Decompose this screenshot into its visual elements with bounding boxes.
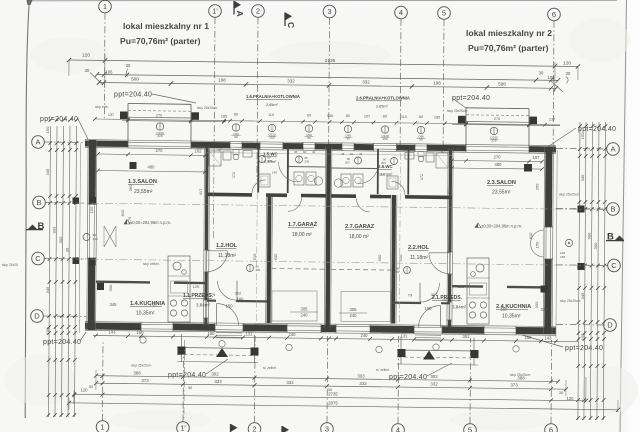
svg-text:185: 185 [221, 115, 227, 119]
slup columns [2, 105, 585, 377]
room label 2.5 WC [378, 164, 393, 177]
svg-text:słup 25x25cm: słup 25x25cm [447, 109, 468, 113]
svg-text:10,35m²: 10,35m² [502, 314, 521, 320]
svg-text:143: 143 [545, 335, 553, 340]
svg-text:200: 200 [256, 268, 261, 272]
svg-text:30: 30 [85, 68, 90, 73]
bottom dim line 373/333 [89, 378, 568, 395]
grid axis 4 top [395, 6, 408, 150]
svg-text:2.5.WC: 2.5.WC [378, 164, 393, 169]
svg-text:200: 200 [305, 160, 310, 164]
svg-text:40: 40 [312, 150, 316, 154]
svg-text:ppt=204.40: ppt=204.40 [114, 92, 152, 99]
grid axis 2 top [252, 5, 265, 180]
room label 2.6 PRALNIA [356, 96, 410, 109]
room label 1.2 HOL [216, 243, 238, 259]
svg-text:240: 240 [361, 333, 369, 338]
svg-text:345: 345 [580, 292, 585, 299]
svg-text:150: 150 [560, 255, 565, 259]
svg-text:129: 129 [193, 284, 200, 289]
door hol/przeds lokal 1 [218, 281, 238, 301]
svg-text:79: 79 [211, 292, 216, 297]
svg-text:302: 302 [430, 374, 438, 379]
svg-text:1.5.WC: 1.5.WC [263, 152, 278, 157]
entrance door lokal 2 [419, 306, 441, 328]
svg-text:351: 351 [463, 334, 471, 339]
axis line inside building [184, 150, 401, 420]
svg-text:30: 30 [539, 71, 544, 76]
kitchen counter lokal 2 [467, 258, 489, 324]
room label 2.2 HOL [408, 245, 430, 261]
svg-text:150: 150 [535, 241, 540, 248]
svg-text:3: 3 [327, 7, 331, 16]
pralnia partition lokal 1 [288, 166, 326, 169]
svg-text:3,84m²: 3,84m² [452, 305, 467, 310]
left dimension chains [45, 118, 78, 417]
room label 1.4 KUCHNIA [130, 301, 165, 317]
door wc lokal 2 [392, 181, 406, 195]
svg-text:240: 240 [289, 332, 297, 337]
svg-text:106: 106 [548, 75, 556, 80]
row axis C left [32, 252, 86, 265]
svg-text:30: 30 [126, 63, 131, 68]
row axis A left [32, 136, 86, 149]
svg-text:200: 200 [345, 161, 350, 165]
row axis D left [31, 310, 86, 323]
svg-text:300: 300 [534, 301, 539, 308]
title lokal 1 [120, 21, 209, 46]
svg-text:4: 4 [399, 8, 403, 17]
bathroom fixtures lokal 2 [334, 152, 448, 190]
svg-text:345: 345 [45, 286, 50, 293]
svg-text:60: 60 [307, 114, 311, 118]
svg-text:sł. żelbet.: sł. żelbet. [376, 368, 390, 372]
svg-text:4: 4 [396, 426, 400, 432]
grid axis 3 bottom [321, 336, 334, 432]
svg-text:6: 6 [552, 10, 556, 19]
svg-text:45: 45 [341, 152, 345, 156]
svg-text:11,18m²: 11,18m² [218, 253, 236, 259]
svg-text:2,83m²: 2,83m² [380, 172, 393, 177]
svg-text:345: 345 [541, 307, 549, 312]
porch lokal 2 [397, 337, 479, 366]
svg-text:18,00 m²: 18,00 m² [349, 234, 369, 240]
grid axis 1' top [209, 5, 222, 150]
svg-text:480: 480 [148, 165, 156, 170]
svg-text:150: 150 [45, 327, 50, 334]
svg-text:2135: 2135 [325, 58, 336, 64]
svg-text:1: 1 [103, 2, 107, 11]
svg-text:słup żelb.: słup żelb. [95, 105, 109, 109]
svg-text:D: D [607, 321, 613, 330]
elevation mark lokal 2 [475, 223, 522, 229]
svg-text:102: 102 [455, 148, 461, 152]
svg-text:A: A [235, 11, 245, 17]
level label ppt=204.40 bot-porch-2 [389, 363, 452, 381]
svg-text:Pu=70,76m² (parter): Pu=70,76m² (parter) [120, 36, 201, 46]
svg-text:23,55m²: 23,55m² [492, 190, 511, 196]
hol small dims [197, 146, 461, 181]
level label ppt=204.40 top-right [546, 126, 616, 148]
grid axis 6 top [548, 8, 561, 155]
interior vertical dims [89, 183, 540, 308]
door salon/hol lokal 2 [429, 253, 450, 274]
svg-text:ppt=204.40: ppt=204.40 [40, 116, 78, 123]
exterior wall east [543, 147, 553, 334]
dim band end verticals [105, 54, 555, 92]
grid axis 1 bottom [96, 342, 109, 432]
svg-text:150: 150 [580, 132, 585, 139]
porch lokal 1 [177, 334, 259, 363]
french door west wall [83, 197, 116, 266]
bottom band end verticals [69, 370, 618, 412]
garage west wall lokal 1 [266, 195, 273, 324]
svg-text:A: A [610, 145, 615, 154]
svg-text:ppt=204.40: ppt=204.40 [452, 95, 490, 102]
svg-text:150: 150 [89, 206, 94, 213]
svg-text:słup 25x25: słup 25x25 [2, 263, 18, 267]
svg-text:240: 240 [301, 313, 309, 318]
svg-text:810: 810 [120, 209, 125, 216]
garage east wall lokal 2 [390, 195, 397, 324]
row axis B line across building [47, 203, 606, 210]
svg-text:30: 30 [566, 71, 571, 76]
svg-text:126: 126 [327, 114, 333, 118]
svg-text:ppt=204.40: ppt=204.40 [578, 126, 616, 133]
salon 2 top dims [450, 155, 544, 171]
svg-text:C: C [35, 254, 41, 263]
service partitions [258, 148, 408, 195]
svg-text:Pu=70,76m² (parter): Pu=70,76m² (parter) [468, 43, 549, 53]
garage 2.7 inner outline [331, 269, 392, 321]
window dimension chain [93, 113, 560, 127]
svg-text:lokal mieszkalny nr 1: lokal mieszkalny nr 1 [123, 21, 209, 31]
room label 1.3 SALON [128, 179, 157, 195]
svg-text:60: 60 [234, 113, 238, 117]
svg-text:210: 210 [93, 237, 98, 241]
svg-text:1.7.GARAŻ: 1.7.GARAŻ [288, 221, 318, 228]
svg-text:600: 600 [377, 254, 382, 261]
level label ppt=204.40 bot-porch-1 [168, 359, 228, 379]
svg-text:A: A [35, 138, 40, 147]
svg-text:B: B [610, 205, 615, 214]
svg-text:270: 270 [156, 114, 162, 118]
svg-text:2,65m²: 2,65m² [266, 103, 278, 107]
svg-text:ppt=204.40: ppt=204.40 [168, 372, 206, 379]
grid axis 1' bottom [177, 350, 190, 432]
svg-text:198: 198 [218, 78, 226, 83]
svg-text:120: 120 [82, 53, 90, 59]
svg-text:1.6.PRALNIA+KOTLOWNIA: 1.6.PRALNIA+KOTLOWNIA [246, 94, 300, 99]
room label 1.1 PRZEDS [183, 293, 214, 308]
svg-text:900: 900 [587, 232, 592, 239]
svg-text:150: 150 [208, 331, 216, 336]
row axis A right [556, 143, 619, 156]
partition salon/kuchnia lokal 2 [452, 285, 545, 289]
svg-text:60: 60 [346, 114, 350, 118]
svg-text:120: 120 [81, 388, 89, 393]
svg-text:2875: 2875 [328, 400, 338, 405]
page left edge [25, 0, 29, 418]
svg-text:332: 332 [359, 381, 367, 386]
svg-text:300: 300 [593, 242, 598, 249]
svg-text:150: 150 [45, 126, 50, 133]
svg-text:±0,00=204,96m n.p.m.: ±0,00=204,96m n.p.m. [481, 224, 522, 229]
level label ppt=204.40 bot-right [522, 335, 603, 352]
svg-text:360: 360 [535, 183, 540, 190]
title lokal 2 [466, 28, 552, 53]
svg-text:słup żelbet.: słup żelbet. [143, 262, 160, 266]
room label 1.6 PRALNIA [246, 94, 300, 107]
svg-text:810: 810 [528, 232, 533, 239]
scan top edge line [27, 0, 618, 5]
svg-text:510: 510 [252, 253, 257, 260]
wall outer face lines [79, 143, 557, 338]
svg-text:60: 60 [383, 115, 387, 119]
section flag A bottom [231, 424, 238, 432]
svg-text:131: 131 [246, 332, 254, 337]
svg-text:345: 345 [110, 302, 118, 307]
service strip wall (garage north walls) [207, 193, 452, 200]
svg-text:40: 40 [359, 152, 363, 156]
door garage lokal 1 [288, 198, 302, 212]
svg-text:270: 270 [494, 117, 500, 121]
svg-text:129: 129 [458, 284, 465, 289]
pralnia partition lokal 2 [331, 167, 378, 170]
section flag C bottom [282, 426, 289, 432]
svg-text:300: 300 [58, 236, 63, 243]
svg-text:302: 302 [211, 371, 219, 376]
svg-text:332: 332 [362, 80, 370, 85]
svg-text:1': 1' [212, 7, 218, 16]
svg-text:60: 60 [303, 150, 307, 154]
exterior wall west [87, 140, 97, 330]
svg-text:143: 143 [109, 330, 117, 335]
row axis B right [556, 203, 619, 216]
door salon/hol lokal 1 [207, 251, 228, 272]
svg-text:150: 150 [150, 303, 158, 308]
svg-text:198: 198 [433, 81, 441, 86]
svg-text:57: 57 [218, 148, 222, 152]
door marker hol lokal 1 [247, 265, 261, 273]
leader strokes top-left [90, 73, 563, 93]
row axis D right [556, 319, 616, 332]
svg-text:172: 172 [232, 172, 236, 178]
grid axis 5 top [438, 7, 451, 150]
svg-text:110: 110 [268, 113, 274, 117]
svg-text:110: 110 [401, 115, 407, 119]
entrance steps lokal 1 [216, 333, 242, 339]
bottom total dim line 2735 [72, 388, 588, 403]
room label 2.4 KUCHNIA [496, 304, 531, 320]
svg-text:137: 137 [108, 113, 114, 117]
svg-text:305: 305 [301, 307, 309, 312]
salon 1 top dims [96, 148, 207, 174]
svg-text:C: C [286, 22, 296, 28]
svg-text:2735: 2735 [328, 392, 338, 397]
row axis C line across building [47, 259, 606, 266]
interior wall hol/salon lokal 1 [203, 147, 209, 327]
interior wall hol/kuchnia lokal 2 [447, 149, 453, 328]
room label 2.3 SALON [487, 180, 516, 196]
level label ppt=204.40 top-terrace-1 [114, 92, 196, 104]
svg-text:2: 2 [256, 7, 260, 16]
terrace lokal 1 [120, 104, 226, 142]
door marker hol lokal 2 [395, 267, 411, 275]
svg-text:107: 107 [533, 155, 541, 160]
entrance door lokal 1 [217, 304, 239, 326]
svg-text:45: 45 [294, 150, 298, 154]
svg-text:2: 2 [252, 425, 256, 432]
svg-text:185: 185 [434, 116, 440, 120]
garage door dims [290, 307, 367, 319]
top overall dimension line 2135 [67, 53, 580, 81]
svg-text:102: 102 [195, 148, 203, 153]
svg-text:508: 508 [498, 82, 506, 87]
svg-text:5: 5 [442, 9, 446, 18]
svg-text:11,18m²: 11,18m² [410, 255, 428, 261]
svg-text:1': 1' [180, 424, 186, 432]
svg-text:6: 6 [549, 426, 553, 432]
svg-text:C: C [611, 261, 617, 270]
grid axis 4 bottom [392, 336, 405, 432]
service strip lintel line [207, 153, 452, 156]
svg-text:słup 25x25cm: słup 25x25cm [131, 364, 152, 368]
row axis B left [33, 196, 86, 209]
elevation mark lokal 1 [124, 220, 171, 226]
svg-text:903: 903 [52, 226, 57, 233]
svg-text:120: 120 [567, 396, 575, 401]
door hol/przeds lokal 2 [420, 283, 440, 303]
svg-text:150: 150 [226, 304, 234, 309]
svg-text:2.6.PRALNIA+KOTLOWNIA: 2.6.PRALNIA+KOTLOWNIA [356, 96, 410, 101]
svg-text:149: 149 [272, 171, 277, 175]
svg-text:307: 307 [431, 292, 438, 297]
level label ppt=204.40 bot-left [43, 332, 86, 346]
svg-text:131: 131 [401, 333, 409, 338]
svg-text:30: 30 [65, 247, 70, 252]
svg-text:137: 137 [549, 118, 555, 122]
svg-text:332: 332 [287, 79, 295, 84]
svg-text:417: 417 [446, 187, 451, 194]
room label 2.7 GARAZ [345, 224, 375, 240]
garage 1.7 inner outline [272, 269, 327, 322]
section flag B right [606, 232, 624, 243]
grid axis 5 bottom [464, 338, 477, 432]
french door east wall [531, 230, 573, 259]
svg-text:480: 480 [495, 162, 503, 167]
svg-text:360: 360 [128, 184, 133, 191]
kitchen window dims [110, 302, 549, 312]
svg-text:2,53m²: 2,53m² [264, 159, 277, 164]
bathroom fixtures lokal 1 [209, 150, 323, 188]
svg-text:2,65m²: 2,65m² [376, 105, 388, 109]
svg-text:18,00 m²: 18,00 m² [292, 232, 312, 238]
svg-text:106: 106 [106, 70, 114, 75]
bottom total dim line 2875 [67, 400, 620, 412]
svg-text:305: 305 [350, 307, 358, 312]
svg-text:B: B [607, 232, 614, 243]
svg-text:270: 270 [494, 155, 502, 160]
row axis C right [556, 259, 620, 272]
svg-text:30: 30 [89, 384, 94, 389]
svg-text:240: 240 [350, 313, 358, 318]
svg-text:332: 332 [286, 380, 294, 385]
door wc lokal 1 [252, 180, 266, 194]
svg-text:175: 175 [127, 216, 132, 223]
svg-text:79: 79 [408, 293, 413, 298]
svg-text:417: 417 [198, 188, 203, 195]
exterior wall south [85, 322, 556, 336]
svg-text:150: 150 [137, 330, 145, 335]
svg-text:słup 25x25cm: słup 25x25cm [559, 193, 580, 197]
svg-text:3,84m²: 3,84m² [196, 303, 211, 308]
svg-text:345: 345 [45, 168, 50, 175]
window marker symbols [156, 123, 499, 143]
svg-text:30: 30 [188, 385, 193, 390]
svg-text:5: 5 [468, 426, 472, 432]
grid axis 2 bottom [248, 336, 261, 432]
grid axis 3 top [323, 5, 336, 150]
svg-text:lokal mieszkalny nr 2: lokal mieszkalny nr 2 [466, 28, 552, 38]
svg-text:79: 79 [442, 297, 447, 302]
bottom dim chain under wall [93, 330, 578, 353]
grid axis 1 top [99, 0, 112, 118]
svg-text:333: 333 [214, 379, 222, 384]
svg-text:±0,00=204,96m n.p.m.: ±0,00=204,96m n.p.m. [130, 220, 171, 225]
partition salon/kuchnia lokal 1 [96, 281, 206, 285]
svg-text:B: B [38, 221, 45, 232]
top dimension line segments 508/198/332 [97, 77, 558, 91]
svg-text:107: 107 [364, 115, 370, 119]
svg-text:słup 25x25cm: słup 25x25cm [560, 299, 581, 303]
svg-text:120: 120 [563, 61, 571, 67]
svg-text:57: 57 [441, 150, 445, 154]
top dimension line segments 30/106/30 [85, 63, 571, 83]
entrance steps lokal 2 [415, 335, 441, 341]
svg-text:172: 172 [420, 174, 424, 180]
svg-text:B: B [36, 198, 41, 207]
party wall center [324, 147, 332, 328]
svg-text:200: 200 [395, 270, 400, 274]
przeds dims [193, 284, 465, 302]
svg-text:510: 510 [398, 254, 403, 261]
svg-text:300: 300 [108, 284, 113, 291]
svg-text:508: 508 [131, 77, 139, 82]
partition hol/przeds lokal 1 [207, 300, 267, 303]
svg-text:332: 332 [430, 382, 438, 387]
svg-text:23,55m²: 23,55m² [134, 189, 153, 195]
room label 1.7 GARAZ [288, 221, 318, 238]
bottom dim line 388/302 [94, 370, 560, 383]
svg-text:60: 60 [419, 115, 423, 119]
svg-text:345: 345 [580, 174, 585, 181]
svg-text:sł. żelbet.: sł. żelbet. [263, 366, 277, 370]
section flag B left [26, 221, 45, 232]
svg-text:150: 150 [580, 333, 585, 340]
kitchen counter lokal 1 [168, 256, 190, 322]
svg-text:302: 302 [235, 291, 242, 296]
svg-text:270: 270 [156, 148, 164, 153]
svg-text:373: 373 [510, 383, 518, 388]
partition hol/przeds lokal 2 [392, 302, 450, 305]
door garage lokal 2 [357, 199, 371, 213]
level label ppt=204.40 top-terrace-2 [452, 95, 490, 108]
right dimension chains [576, 122, 607, 420]
svg-text:388: 388 [133, 370, 141, 375]
svg-text:D: D [34, 312, 40, 321]
svg-text:3: 3 [325, 425, 329, 432]
